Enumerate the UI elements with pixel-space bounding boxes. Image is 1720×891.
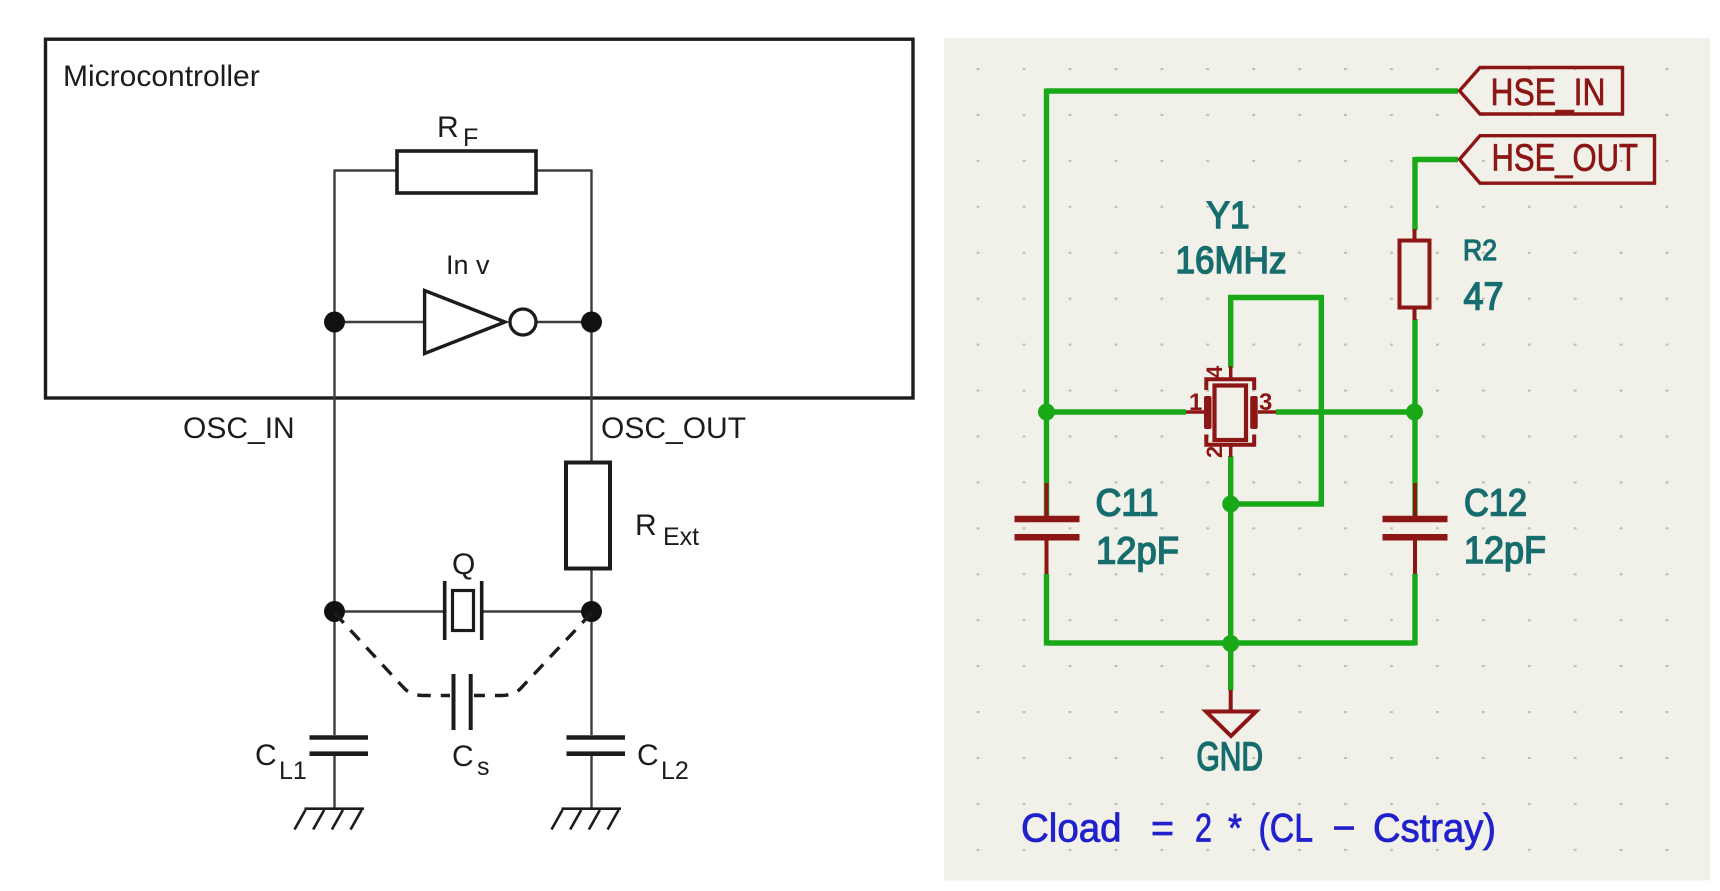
label Microcontroller [63, 60, 260, 93]
dashed stray path left [335, 613, 451, 696]
crystal Y1 right pin [1258, 410, 1276, 414]
label R_Ext [635, 509, 699, 551]
crystal Y1 left electrode plate [1204, 396, 1212, 429]
power symbol GND [1206, 690, 1256, 736]
ground right [552, 809, 622, 830]
svg-text:=: = [1151, 807, 1174, 851]
svg-text:HSE_IN: HSE_IN [1491, 72, 1606, 114]
svg-text:12pF: 12pF [1096, 531, 1179, 573]
svg-text:47: 47 [1464, 276, 1504, 319]
crystal Y1 pin number 1 [1189, 389, 1202, 416]
crystal Y1 body [1215, 386, 1247, 441]
crystal Y1 bottom shield bracket [1206, 435, 1254, 445]
wire top feedback left segment [334, 169, 399, 171]
svg-text:Ext: Ext [663, 523, 699, 551]
red pin stubs C11 [1045, 483, 1049, 574]
crystal Y1 top pin stub [1229, 366, 1233, 378]
wire bottom horizontal [1047, 640, 1416, 645]
svg-text:Microcontroller: Microcontroller [63, 60, 260, 93]
label 47 [1464, 276, 1504, 319]
svg-text:12pF: 12pF [1464, 530, 1546, 572]
crystal Y1 bottom pin stub [1229, 446, 1233, 457]
capacitor C_s right plate [469, 674, 473, 730]
svg-text:R: R [437, 111, 459, 144]
capacitor C_s left plate [452, 674, 456, 730]
hierarchical label HSE_OUT text [1492, 138, 1639, 180]
svg-text:Y1: Y1 [1207, 195, 1250, 237]
wire left branch vertical (OSC_IN net) [333, 171, 335, 736]
svg-text:HSE_OUT: HSE_OUT [1492, 138, 1639, 180]
node dot inverter input [324, 312, 345, 333]
svg-text:C12: C12 [1464, 483, 1527, 525]
wire crystal row right [484, 610, 592, 612]
label OSC_IN [183, 412, 295, 445]
label C11 value [1096, 483, 1180, 573]
wire C11 to bottom [1044, 574, 1049, 646]
svg-text:C: C [452, 740, 474, 773]
resistor R_F body [397, 151, 536, 193]
svg-text:3: 3 [1259, 389, 1272, 416]
wire inverter output [536, 321, 592, 323]
label In v [446, 250, 490, 280]
capacitor C12 plates [1383, 519, 1448, 537]
wire inverter input [335, 321, 425, 323]
wire C_L1 to ground [333, 756, 335, 809]
hierarchical label HSE_OUT shape [1460, 136, 1655, 184]
svg-text:GND: GND [1197, 735, 1264, 779]
crystal Y1 pin number 3 [1259, 389, 1272, 416]
wire crystal row right [1276, 409, 1415, 414]
crystal Q left plate [443, 581, 447, 640]
svg-text:Cstray): Cstray) [1373, 807, 1496, 851]
wire gnd stub [1228, 643, 1233, 690]
junction node right [1406, 404, 1423, 421]
crystal Q right plate [480, 581, 484, 640]
label R2 [1463, 235, 1497, 267]
wire right branch vertical upper (OSC_OUT net) [590, 171, 592, 463]
crystal Y1 pin number 4 (top, rotated) [1202, 365, 1227, 378]
svg-text:−: − [1333, 807, 1356, 851]
wire HSE_OUT vertical to R2 [1412, 157, 1417, 230]
wire C12 to bottom [1412, 574, 1417, 646]
capacitor C_L2 plates [567, 738, 626, 754]
svg-text:Q: Q [452, 548, 475, 581]
wire crystal row left [335, 610, 444, 612]
wire top feedback right segment [535, 169, 593, 171]
svg-text:2: 2 [1195, 807, 1212, 851]
svg-text:(CL: (CL [1259, 807, 1314, 851]
node dot crystal left [324, 601, 345, 622]
label C_s [452, 740, 490, 781]
junction node middle (pin2 loop) [1222, 496, 1239, 513]
wire C_L2 to ground [590, 756, 592, 809]
wire crystal pin2 down [1228, 456, 1233, 646]
label C_L2 [637, 739, 689, 785]
note Cload formula [1021, 807, 1496, 851]
svg-text:C11: C11 [1096, 483, 1159, 525]
label Y1 [1207, 195, 1250, 237]
wire left vertical [1044, 89, 1049, 415]
crystal Y1 right electrode plate [1250, 396, 1258, 429]
red pin stubs C12 [1413, 483, 1417, 574]
dashed stray path right [474, 613, 592, 696]
wire right branch vertical lower (below R_Ext) [590, 569, 592, 735]
resistor R2 red pins [1413, 229, 1417, 320]
resistor R_Ext body [566, 463, 610, 569]
wire HSE_IN horizontal [1047, 88, 1459, 93]
svg-text:OSC_IN: OSC_IN [183, 412, 295, 445]
svg-text:1: 1 [1189, 389, 1202, 416]
label OSC_OUT [601, 412, 746, 445]
label R_F [437, 111, 478, 152]
wire crystal row left [1047, 409, 1187, 414]
svg-text:F: F [463, 124, 478, 152]
wire R2 to node [1412, 319, 1417, 412]
svg-text:s: s [477, 753, 490, 781]
junction node left [1038, 404, 1055, 421]
svg-text:C: C [637, 739, 659, 772]
svg-text:16MHz: 16MHz [1176, 240, 1287, 282]
hierarchical label HSE_IN text [1491, 72, 1606, 114]
wire shield loop [1231, 298, 1322, 505]
label GND [1197, 735, 1264, 779]
wire left to C11 [1044, 412, 1049, 516]
svg-text:Cload: Cload [1021, 807, 1122, 851]
label C12 value [1464, 483, 1546, 573]
svg-text:L1: L1 [279, 757, 307, 785]
crystal Y1 pin number 2 (bottom, rotated) [1202, 446, 1227, 458]
label Q [452, 548, 475, 581]
wire HSE_OUT stub [1415, 157, 1458, 162]
microcontroller box [46, 39, 914, 398]
svg-text:R2: R2 [1463, 235, 1497, 267]
svg-text:C: C [255, 739, 277, 772]
crystal Q body [453, 591, 474, 631]
svg-text:In v: In v [446, 250, 490, 280]
svg-text:2: 2 [1202, 446, 1227, 458]
svg-text:*: * [1228, 807, 1242, 851]
label 16MHz [1176, 240, 1287, 282]
junction node bottom [1222, 635, 1239, 652]
resistor R2 body [1400, 241, 1430, 308]
hierarchical label HSE_IN shape [1460, 68, 1623, 115]
capacitor C11 plates [1015, 519, 1080, 537]
svg-text:4: 4 [1202, 365, 1227, 378]
inverter output bubble [510, 309, 536, 335]
svg-text:L2: L2 [661, 757, 689, 785]
schematic background [944, 38, 1710, 881]
capacitor C_L1 plates [310, 738, 369, 754]
op-amp inverter Inv triangle [425, 291, 505, 354]
label C_L1 [255, 739, 307, 785]
svg-text:OSC_OUT: OSC_OUT [601, 412, 746, 445]
crystal Y1 top shield bracket [1206, 379, 1254, 390]
node dot inverter output [581, 312, 602, 333]
svg-text:R: R [635, 509, 657, 542]
ground left [295, 809, 365, 830]
node dot crystal right [581, 601, 602, 622]
wire right to C12 [1412, 412, 1417, 516]
crystal Y1 left pin [1186, 410, 1204, 414]
